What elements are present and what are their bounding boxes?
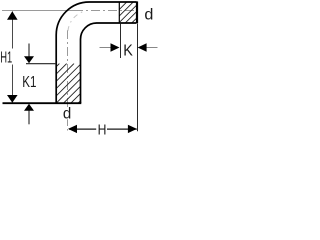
- svg-text:H: H: [98, 122, 107, 139]
- svg-text:K: K: [123, 42, 133, 59]
- svg-text:d: d: [144, 6, 153, 23]
- svg-text:d: d: [63, 106, 71, 123]
- svg-text:H1: H1: [0, 50, 12, 67]
- svg-text:K1: K1: [22, 74, 36, 91]
